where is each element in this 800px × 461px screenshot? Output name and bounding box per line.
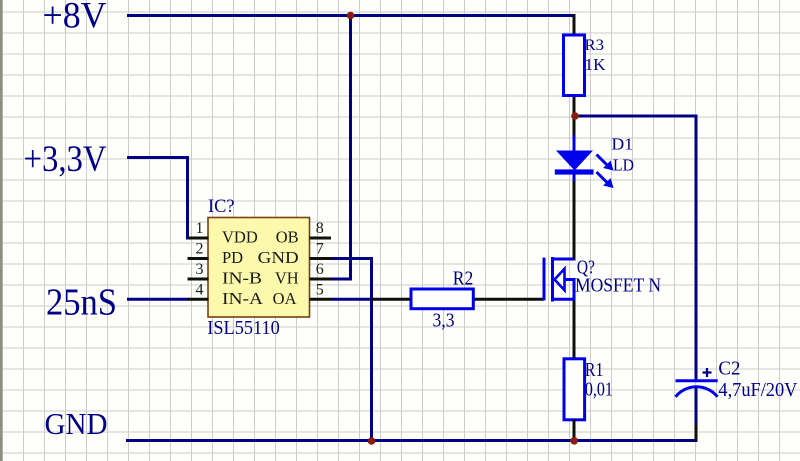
- diode D1 anode pin: [573, 116, 576, 136]
- svg-text:GND: GND: [258, 248, 299, 267]
- junction node GND/R1: [570, 437, 578, 445]
- LED arrow 1: [597, 155, 614, 171]
- IC U1 body: [208, 218, 310, 318]
- pin 3: [188, 278, 209, 281]
- svg-text:2: 2: [196, 241, 204, 258]
- svg-text:VH: VH: [275, 268, 299, 287]
- pin 6: [310, 278, 332, 281]
- svg-text:GND: GND: [45, 406, 108, 441]
- svg-text:25nS: 25nS: [46, 282, 117, 324]
- svg-text:0,01: 0,01: [585, 379, 613, 401]
- transistor Q? right connector: [573, 278, 576, 301]
- svg-text:1: 1: [196, 220, 204, 237]
- svg-text:IC?: IC?: [208, 196, 235, 217]
- diode D1 anode lead: [573, 135, 576, 151]
- transistor Q? channel bar: [551, 257, 554, 302]
- transistor Q? middle stub: [564, 278, 576, 281]
- svg-text:R1: R1: [585, 359, 604, 381]
- pin 4: [188, 298, 209, 301]
- resistor R1 body: [564, 359, 585, 420]
- LED arrow 2: [597, 172, 614, 188]
- wire R3/D1 node to C2 top: [574, 116, 696, 381]
- wire pin 5 to R2: [331, 298, 373, 301]
- svg-text:R2: R2: [453, 267, 474, 289]
- svg-text:5: 5: [316, 282, 324, 299]
- svg-text:3: 3: [196, 261, 204, 278]
- diode D1 cathode lead: [573, 174, 576, 182]
- svg-text:D1: D1: [612, 135, 634, 154]
- svg-text:+8V: +8V: [43, 0, 107, 37]
- diode D1 cathode bar: [555, 169, 594, 174]
- svg-text:IN-B: IN-B: [222, 268, 262, 287]
- wire pin 7 GND to bottom rail: [331, 259, 372, 442]
- transistor Q? source pin down: [573, 301, 576, 360]
- transistor Q? drain pin up: [573, 257, 576, 259]
- junction node GND/pin7: [368, 437, 376, 445]
- svg-text:OB: OB: [276, 227, 299, 246]
- pin 7: [310, 257, 332, 260]
- diode D1 cathode pin to Q drain: [573, 181, 576, 259]
- svg-text:C2: C2: [718, 358, 740, 380]
- transistor Q? drain stub: [551, 258, 576, 261]
- sheet left border: [0, 0, 3, 461]
- pin 8: [310, 237, 332, 240]
- wire pin 6 VH to +8V rail: [331, 14, 351, 279]
- svg-text:ISL55110: ISL55110: [207, 317, 279, 339]
- svg-text:6: 6: [316, 261, 324, 278]
- transistor Q? body arrow: [555, 269, 565, 290]
- capacitor C2 plus sign: [703, 368, 712, 377]
- transistor Q? gate pin: [473, 298, 545, 301]
- diode D1 triangle: [556, 151, 593, 171]
- wire bottom GND rail: [126, 439, 698, 442]
- svg-text:IN-A: IN-A: [222, 289, 263, 308]
- resistor R2 body: [411, 289, 473, 309]
- junction node R3/D1/C2: [571, 112, 579, 120]
- pin 2: [188, 257, 209, 260]
- svg-text:LD: LD: [613, 155, 634, 174]
- resistor R3 bottom pin: [573, 95, 576, 117]
- svg-text:R3: R3: [585, 37, 605, 54]
- capacitor C2 bottom plate arc: [676, 387, 718, 397]
- svg-text:VDD: VDD: [222, 227, 258, 246]
- wire 25nS to pin 4: [127, 298, 189, 301]
- svg-text:OA: OA: [273, 289, 297, 308]
- svg-text:4,7uF/20V: 4,7uF/20V: [718, 379, 798, 401]
- wire +8V rail: [127, 14, 576, 17]
- wire +3,3V to pin 1: [127, 158, 188, 240]
- resistor R2 left pin: [372, 298, 412, 301]
- resistor R3 body: [564, 35, 585, 96]
- pin 1: [188, 237, 209, 240]
- resistor R1 bottom pin: [573, 420, 576, 441]
- svg-text:PD: PD: [222, 248, 243, 267]
- svg-text:+3,3V: +3,3V: [24, 139, 107, 180]
- wire C2 bottom lead: [695, 388, 698, 424]
- svg-text:MOSFET N: MOSFET N: [575, 274, 661, 296]
- svg-text:3,3: 3,3: [433, 310, 455, 332]
- svg-text:4: 4: [196, 282, 204, 299]
- capacitor C2 top plate: [676, 379, 718, 382]
- transistor Q? source stub: [551, 298, 576, 301]
- transistor Q? gate bar: [543, 258, 546, 301]
- svg-text:7: 7: [316, 241, 324, 258]
- svg-text:1K: 1K: [585, 55, 607, 74]
- svg-text:8: 8: [316, 220, 324, 237]
- pin 5: [310, 298, 332, 301]
- capacitor C2 bottom pin: [695, 424, 698, 442]
- resistor R3 top pin: [573, 14, 576, 36]
- junction node +8V/VH: [347, 12, 355, 20]
